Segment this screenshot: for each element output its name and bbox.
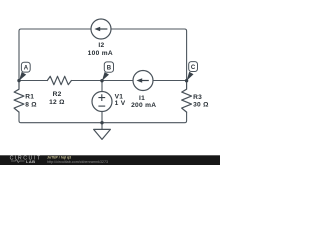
svg-text:A: A xyxy=(24,66,29,72)
svg-text:http://circuitlab.com/ckbenram: http://circuitlab.com/ckbenramnk3273 xyxy=(47,160,108,164)
wire V1 top lead xyxy=(101,81,103,92)
resistor R1 xyxy=(14,81,24,113)
wire middle right (I1 to node C) xyxy=(153,80,187,82)
V1 minus sign xyxy=(98,105,105,107)
voltage source V1 xyxy=(92,92,112,112)
svg-text:B: B xyxy=(107,66,112,72)
svg-text:R3: R3 xyxy=(193,94,202,101)
svg-text:100 mA: 100 mA xyxy=(88,50,113,57)
junction bottom (V1/ground to bottom rail) xyxy=(100,121,103,124)
node C xyxy=(185,62,198,83)
svg-text:1 V: 1 V xyxy=(115,100,126,107)
V1 plus sign xyxy=(98,94,105,101)
wire middle center (R2 to I1) xyxy=(71,80,133,82)
svg-text:12 Ω: 12 Ω xyxy=(49,99,65,106)
wire left rail lower + bottom rail + right rail lower xyxy=(19,112,187,123)
svg-text:R2: R2 xyxy=(53,91,62,98)
resistor R3 xyxy=(182,81,192,113)
svg-text:I2: I2 xyxy=(98,42,104,49)
svg-text:LAB: LAB xyxy=(26,159,35,164)
svg-text:R1: R1 xyxy=(25,93,34,100)
current source I2 xyxy=(91,19,111,39)
svg-text:JoTEP / hql q3: JoTEP / hql q3 xyxy=(47,156,71,160)
node B xyxy=(100,62,113,83)
ground xyxy=(94,129,111,139)
wire top rail right segment xyxy=(111,29,187,81)
CircuitLab logo xyxy=(10,155,42,164)
wire V1 bottom lead to ground xyxy=(101,112,103,130)
svg-text:C: C xyxy=(191,65,196,71)
svg-text:30 Ω: 30 Ω xyxy=(193,102,209,109)
wire top rail left segment xyxy=(19,29,91,81)
svg-text:8 Ω: 8 Ω xyxy=(25,101,37,108)
watermark bar xyxy=(0,155,220,165)
resistor R2 xyxy=(47,76,71,84)
I1 arrow xyxy=(136,78,148,83)
node A xyxy=(17,62,30,82)
I2 arrow xyxy=(94,27,107,32)
current source I1 xyxy=(133,71,153,91)
svg-text:200 mA: 200 mA xyxy=(131,102,156,109)
wire middle left (node A to R2) xyxy=(19,80,47,82)
